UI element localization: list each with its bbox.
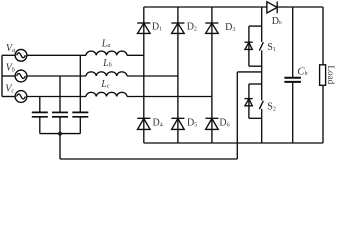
svg-text:Lc: Lc <box>100 79 110 90</box>
svg-text:Db: Db <box>272 16 282 27</box>
switch column lower segment <box>261 109 263 143</box>
svg-text:Load: Load <box>326 65 336 84</box>
wire top rail after Db <box>277 6 323 8</box>
wire phase c: source to inductor <box>27 96 86 98</box>
diode D2 <box>171 23 184 33</box>
svg-text:D3: D3 <box>225 22 235 33</box>
wire neutral to source Va <box>2 54 15 56</box>
diode D4 <box>137 118 150 129</box>
wire capacitor common bus <box>40 133 81 135</box>
svg-text:D6: D6 <box>219 118 229 129</box>
load resistor box <box>320 65 326 86</box>
junction dot <box>58 132 62 136</box>
wire neutral riser to midpoint <box>236 72 238 159</box>
diode D3 <box>205 23 218 33</box>
capacitor C2 <box>52 112 68 116</box>
inductor Lc <box>86 92 127 96</box>
svg-text:Va: Va <box>6 43 15 54</box>
load column top <box>322 7 324 65</box>
wire cap tap from phase a <box>79 55 81 112</box>
wire neutral bottom run <box>60 158 237 160</box>
wire Lc to bridge leg3 <box>127 96 212 98</box>
switch column upper segment <box>261 7 263 42</box>
capacitor Cb top stem <box>292 7 294 77</box>
wire neutral to source Vc <box>2 96 15 98</box>
wire bottom rail <box>144 142 323 144</box>
diode D6 <box>205 118 218 129</box>
svg-text:Vc: Vc <box>5 84 14 95</box>
wire cap tap from phase b <box>59 76 61 112</box>
bridge leg 3 <box>211 7 213 143</box>
neutral bus left <box>1 55 3 96</box>
capacitor C3 <box>72 112 88 116</box>
wire phase b: source to inductor <box>27 75 86 77</box>
switch S2 lever <box>259 101 263 109</box>
svg-text:La: La <box>101 38 111 49</box>
capacitor Cb bottom stem <box>292 83 294 144</box>
svg-text:Cb: Cb <box>297 65 307 77</box>
S1 parallel diode branch <box>245 26 262 66</box>
wire La to bridge leg1 <box>127 54 144 56</box>
source Vb <box>15 70 27 82</box>
svg-text:D4: D4 <box>153 117 163 128</box>
source Va <box>15 49 27 61</box>
inductor La <box>86 51 127 55</box>
wire neutral down <box>59 134 61 159</box>
wire Lb to bridge leg2 <box>127 75 178 77</box>
svg-text:S2: S2 <box>267 102 276 113</box>
svg-text:D1: D1 <box>152 21 162 32</box>
diode Db <box>267 2 277 14</box>
capacitor Cb <box>284 78 301 82</box>
bridge leg 2 <box>177 7 179 143</box>
svg-text:Vb: Vb <box>6 63 15 74</box>
wire phase a: source to inductor <box>27 54 86 56</box>
bridge leg 1 <box>143 7 145 143</box>
source Vc <box>15 91 27 103</box>
wire top rail <box>144 6 267 8</box>
diode D5 <box>171 118 184 129</box>
svg-text:D2: D2 <box>187 21 197 32</box>
wire cap tap from phase c <box>39 97 41 113</box>
diode D1 <box>137 23 150 33</box>
load column bottom <box>322 85 324 143</box>
capacitor C1 <box>32 112 48 116</box>
switch S1 lever <box>259 42 263 50</box>
wire midpoint to switch column <box>237 71 261 73</box>
switch column middle segment <box>261 50 263 100</box>
wire neutral to source Vb <box>2 75 15 77</box>
svg-text:D5: D5 <box>187 117 197 128</box>
S2 parallel diode branch <box>245 84 262 118</box>
inductor Lb <box>86 72 127 76</box>
svg-text:S1: S1 <box>267 42 276 53</box>
svg-text:Lb: Lb <box>102 58 112 69</box>
